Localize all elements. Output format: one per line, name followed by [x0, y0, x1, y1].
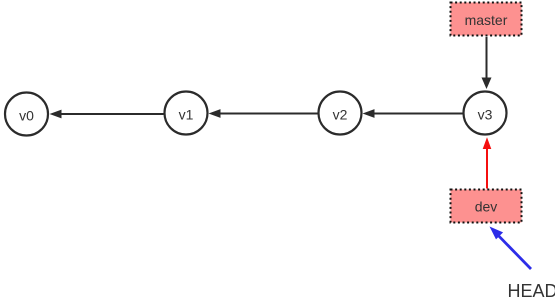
arrow master to v3	[482, 37, 492, 89]
commit node v2	[319, 92, 362, 135]
svg-text:dev: dev	[475, 199, 498, 215]
blue arrow HEAD to dev	[490, 227, 532, 270]
arrow v1 to v0	[50, 110, 164, 119]
arrow v3 to v2	[363, 109, 463, 118]
svg-text:master: master	[465, 12, 508, 28]
svg-text:HEAD: HEAD	[508, 281, 555, 300]
svg-text:v2: v2	[333, 107, 348, 123]
svg-text:v3: v3	[478, 107, 493, 123]
branch box dev	[451, 190, 522, 223]
commit node v3	[464, 92, 507, 135]
svg-text:v0: v0	[19, 108, 34, 124]
commit node v1	[165, 92, 208, 135]
commit node v0	[5, 93, 48, 136]
branch box master	[451, 3, 522, 36]
svg-text:v1: v1	[179, 107, 194, 123]
arrow v2 to v1	[209, 109, 318, 118]
red arrow dev to v3	[483, 137, 492, 188]
